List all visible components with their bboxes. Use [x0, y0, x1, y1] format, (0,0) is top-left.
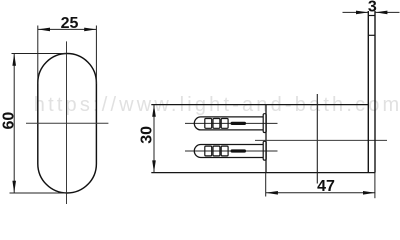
anchor 1 flange	[263, 114, 266, 133]
anchor 2 segment square 3	[221, 146, 228, 156]
screw 1 axis centerline	[185, 122, 278, 124]
anchor 2 outline	[194, 145, 263, 158]
screw 2 shank	[231, 149, 247, 152]
wall plate top cap	[368, 15, 375, 17]
dim 47 line	[266, 192, 376, 194]
svg-text:47: 47	[317, 178, 335, 195]
dim 25 extension line right	[95, 26, 97, 85]
dim 30 arrow top	[152, 105, 156, 117]
anchor 1 segment square 3	[221, 119, 228, 129]
dim 25 extension line left	[37, 26, 39, 85]
dim 60 arrow top	[12, 54, 16, 66]
svg-text:60: 60	[0, 112, 17, 130]
wall plate left edge (side view)	[367, 11, 369, 173]
oval plate (front view)	[38, 54, 97, 194]
dim 60 extension line bottom	[10, 192, 68, 194]
dim 60 line	[13, 54, 15, 194]
vertical centerline	[66, 41, 68, 204]
bracket inner vertical line	[316, 94, 318, 184]
wall plate right edge (side view)	[374, 11, 376, 173]
svg-text:30: 30	[138, 126, 155, 144]
anchor 1 segment square 1	[205, 119, 212, 129]
dim 60 extension line top	[12, 53, 68, 55]
dim 47 extension line left	[265, 173, 267, 197]
dim 47 arrow left	[266, 191, 278, 195]
dim 25 arrow right	[84, 28, 96, 32]
dim 3 arrow left	[356, 11, 368, 15]
wall plate inner tick	[368, 34, 375, 36]
anchor 2 flange	[263, 141, 266, 160]
bracket body left edge	[265, 105, 267, 173]
dim 47 arrow right	[363, 191, 375, 195]
svg-text:25: 25	[61, 15, 79, 32]
dim 3 arrow right	[375, 11, 387, 15]
anchor 2 segment square 1	[205, 146, 212, 156]
dim 3 line right tail	[375, 11, 399, 13]
dim 30 line	[153, 105, 155, 173]
dim 25 line	[38, 28, 97, 30]
horizontal centerline	[26, 122, 108, 124]
screw 1 shank	[231, 122, 247, 125]
anchor 1 outline	[194, 117, 263, 130]
anchor 2 segment square 2	[213, 146, 220, 156]
dim 3 line left tail	[343, 11, 369, 13]
assembly horizontal centerline	[255, 139, 387, 141]
svg-text:3: 3	[368, 0, 377, 15]
dim 47 extension line right	[374, 173, 376, 199]
bracket body top line (and dim 30 top extension)	[151, 104, 368, 106]
dim 25 arrow left	[38, 28, 50, 32]
dim 30 arrow bottom	[152, 160, 156, 172]
anchor 1 segment square 2	[213, 119, 220, 129]
bracket body bottom line (and dim 30 bottom extension)	[151, 172, 375, 174]
dim 60 arrow bottom	[12, 181, 16, 193]
screw 2 axis centerline	[185, 150, 278, 152]
